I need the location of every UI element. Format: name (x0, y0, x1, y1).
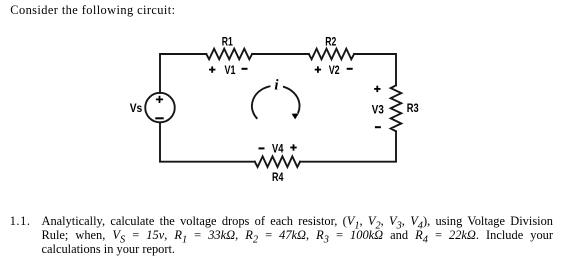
problem number 1.1. (10, 214, 31, 228)
label V4 minus sign (259, 147, 265, 149)
wire top-left: Vs to R1 (160, 54, 206, 93)
svg-text:R1: R1 (222, 37, 233, 49)
svg-text:V1: V1 (225, 65, 236, 77)
svg-text:Vs: Vs (130, 103, 143, 115)
source plus sign (156, 96, 163, 103)
heading text (10, 3, 175, 17)
wire bottom-left: R4 to Vs (160, 122, 255, 161)
wire bottom-right: R3 to R4 (300, 131, 396, 161)
resistor R1 (206, 49, 252, 60)
label V4 plus sign (290, 144, 296, 150)
voltage source Vs circle (145, 93, 175, 123)
svg-text:V2: V2 (329, 65, 340, 77)
label V3 minus sign (375, 126, 381, 128)
resistor R2 (309, 49, 354, 60)
wire top-right: R2 to R3 (354, 54, 396, 85)
label V1 minus sign (242, 68, 248, 70)
svg-text:R2: R2 (325, 37, 336, 49)
current arrowhead (292, 113, 299, 119)
label V3 plus sign (374, 86, 380, 92)
paragraph line 1 (42, 214, 554, 234)
label V2 minus sign (347, 68, 353, 70)
wire top-middle: R1 to R2 (252, 53, 309, 55)
current loop arrow (252, 86, 300, 119)
paragraph line 2 (42, 228, 554, 248)
source minus sign (155, 117, 163, 119)
svg-text:V3: V3 (372, 104, 384, 116)
svg-text:V4: V4 (272, 143, 284, 155)
label V2 plus sign (315, 66, 321, 72)
resistor R3 (391, 85, 402, 131)
resistor R4 (255, 156, 300, 167)
current label i background gap (271, 78, 284, 91)
svg-text:R4: R4 (272, 172, 284, 184)
label V1 plus sign (209, 66, 215, 72)
svg-text:R3: R3 (407, 103, 419, 115)
paragraph line 3 (42, 242, 176, 256)
